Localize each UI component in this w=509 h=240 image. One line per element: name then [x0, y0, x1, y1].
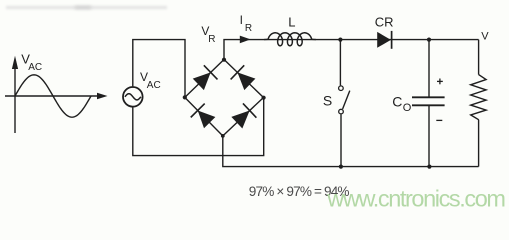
svg-text:O: O [403, 102, 412, 114]
svg-text:L: L [288, 15, 295, 30]
svg-text:I: I [240, 13, 243, 27]
svg-text:C: C [392, 94, 402, 110]
svg-text:www.cntronics.com: www.cntronics.com [326, 186, 505, 212]
svg-text:AC: AC [147, 80, 161, 91]
svg-text:CR: CR [375, 15, 394, 30]
svg-text:AC: AC [28, 62, 42, 73]
svg-text:S: S [323, 92, 332, 108]
svg-text:R: R [245, 23, 252, 34]
svg-text:R: R [208, 34, 215, 45]
svg-text:V: V [481, 30, 489, 42]
